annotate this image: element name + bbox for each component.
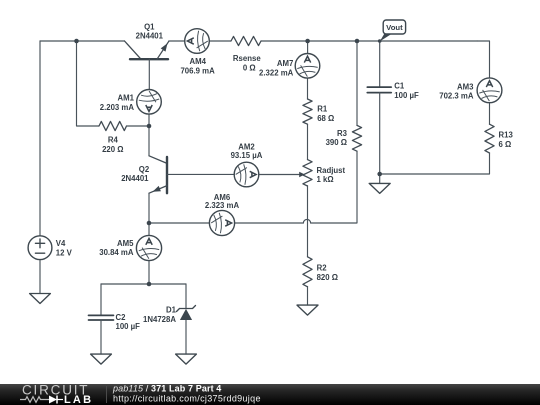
svg-text:30.84 mA: 30.84 mA — [99, 248, 134, 257]
svg-text:1N4728A: 1N4728A — [143, 315, 176, 324]
svg-text:2N4401: 2N4401 — [121, 174, 149, 183]
svg-text:93.15 µA: 93.15 µA — [231, 151, 263, 160]
svg-text:AM4: AM4 — [189, 57, 206, 66]
svg-text:C1: C1 — [394, 82, 405, 91]
svg-text:702.3 mA: 702.3 mA — [439, 92, 474, 101]
svg-text:2.323 mA: 2.323 mA — [205, 201, 240, 210]
svg-text:6 Ω: 6 Ω — [499, 140, 512, 149]
svg-text:2N4401: 2N4401 — [136, 31, 164, 40]
svg-text:706.9 mA: 706.9 mA — [180, 67, 215, 76]
svg-text:R3: R3 — [337, 129, 348, 138]
svg-text:Q2: Q2 — [139, 165, 150, 174]
svg-text:pab115 / 371 Lab 7 Part 4: pab115 / 371 Lab 7 Part 4 — [112, 384, 221, 394]
svg-text:LAB: LAB — [64, 394, 93, 405]
svg-text:Radjust: Radjust — [317, 166, 346, 175]
svg-text:Q1: Q1 — [144, 23, 155, 32]
svg-text:0 Ω: 0 Ω — [243, 63, 256, 72]
svg-text:68 Ω: 68 Ω — [317, 114, 334, 123]
svg-text:R2: R2 — [317, 264, 328, 273]
svg-text:Rsense: Rsense — [233, 54, 261, 63]
svg-text:820 Ω: 820 Ω — [317, 273, 338, 282]
svg-text:2.322 mA: 2.322 mA — [259, 68, 294, 77]
svg-text:390 Ω: 390 Ω — [326, 138, 347, 147]
svg-text:100 µF: 100 µF — [394, 91, 419, 100]
svg-text:2.203 mA: 2.203 mA — [100, 103, 135, 112]
svg-text:C2: C2 — [116, 313, 127, 322]
svg-text:AM1: AM1 — [118, 94, 135, 103]
svg-text:100 µF: 100 µF — [116, 322, 141, 331]
svg-text:V4: V4 — [56, 239, 66, 248]
svg-text:12 V: 12 V — [56, 249, 73, 258]
svg-text:R4: R4 — [108, 136, 119, 145]
svg-text:AM7: AM7 — [277, 59, 293, 68]
svg-text:220 Ω: 220 Ω — [102, 145, 123, 154]
svg-text:AM5: AM5 — [117, 239, 134, 248]
svg-text:D1: D1 — [166, 306, 177, 315]
svg-text:1 kΩ: 1 kΩ — [317, 175, 334, 184]
svg-text:http://circuitlab.com/cj375rdd: http://circuitlab.com/cj375rdd9ujqe — [113, 394, 261, 404]
svg-text:R13: R13 — [499, 131, 514, 140]
svg-text:AM3: AM3 — [457, 82, 474, 91]
svg-text:Vout: Vout — [386, 23, 403, 32]
svg-text:R1: R1 — [317, 105, 328, 114]
